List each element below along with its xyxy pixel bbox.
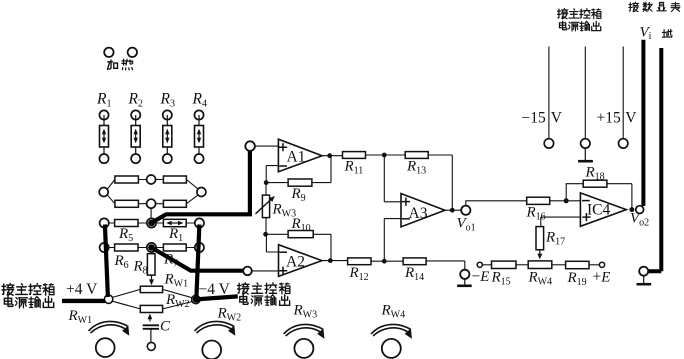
bridge resistor bottom-right: [163, 200, 186, 207]
node Vo2: [636, 206, 644, 214]
svg-text:C: C: [160, 319, 171, 335]
resistor R17: [536, 227, 565, 260]
svg-text:−4 V: −4 V: [199, 281, 231, 298]
resistor R19: [566, 261, 589, 268]
bridge wires: [107, 180, 198, 219]
wire RW4 to R19: [552, 264, 566, 266]
node R6 row right: [195, 243, 204, 252]
thick wire -4V out: [196, 296, 238, 299]
wire A1 minus input: [266, 166, 278, 183]
label 接主控箱 电源输出 at A2: [238, 283, 290, 306]
svg-text:−15: −15: [522, 110, 546, 127]
resistor R10: [288, 231, 313, 238]
resistor R15: [492, 261, 517, 268]
wire R9: [266, 156, 331, 183]
capacitor C branch: [143, 314, 171, 351]
bridge top middle node: [147, 175, 156, 184]
thick wire bridge mid to A1 input: [152, 150, 250, 223]
wire A3 minus input: [384, 219, 401, 262]
node +15V: [619, 139, 628, 148]
label 加热: [108, 59, 133, 70]
supply wire +15V: [622, 47, 624, 139]
node -15V: [544, 139, 553, 148]
resistor R12: [348, 258, 371, 265]
potentiometer node +4V: [104, 295, 112, 303]
strain gauge R3: [160, 91, 175, 164]
junction A1 feedback: [264, 180, 269, 185]
junction R11 R13: [382, 153, 387, 158]
wire R10: [266, 234, 331, 260]
node supply ground: [581, 139, 590, 148]
svg-text:+15: +15: [597, 110, 621, 127]
knob RW2: [195, 306, 242, 359]
junction A1 output: [327, 153, 332, 158]
wire IC4 plus input: [541, 217, 581, 227]
svg-text:IC4: IC4: [587, 202, 611, 219]
hexagon wires RW1 RW2: [112, 289, 192, 309]
supply wire ground middle: [584, 47, 586, 139]
junction blob R5 mid: [148, 220, 155, 227]
resistor R8: [147, 252, 155, 285]
thick wire +4V feed: [62, 299, 105, 303]
wire A2 plus input: [252, 270, 279, 272]
ground symbol supply: [584, 148, 586, 161]
wire R18 feedback: [566, 184, 632, 210]
resistor R16: [527, 197, 550, 204]
ground symbol at R14: [464, 279, 466, 286]
knob RW3: [284, 303, 325, 358]
node R5 row left: [100, 218, 109, 227]
svg-text:+4 V: +4 V: [66, 281, 98, 298]
resistor R6: [115, 244, 138, 251]
node R5 row right: [195, 218, 204, 227]
heater terminal left: [104, 48, 113, 57]
bridge bottom middle node: [147, 199, 156, 208]
thick wire ground: [648, 48, 661, 271]
wire R16 to IC4: [550, 200, 581, 202]
wire R14 to ground: [426, 261, 465, 270]
node +E: [599, 262, 604, 267]
wire RW3 chain: [265, 184, 267, 234]
op-amp A1: [278, 139, 322, 172]
op-amp A2: [279, 245, 322, 277]
thick wire Vi: [641, 40, 645, 206]
thick wire right riser: [196, 225, 199, 298]
wire R5 row: [109, 222, 195, 224]
node R5 row middle: [147, 218, 156, 227]
wire A1 plus input: [255, 145, 279, 147]
bridge socket left node: [99, 188, 108, 197]
op-amp IC4: [580, 193, 626, 226]
resistor R13: [405, 152, 428, 159]
wire R12 to R14: [371, 260, 403, 262]
junction A2 output: [328, 258, 333, 263]
strain gauge R1: [96, 91, 111, 164]
svg-text:A3: A3: [409, 205, 428, 222]
potentiometer RW4: [528, 261, 552, 269]
node A1 input: [245, 141, 255, 151]
junction A2 feedback: [263, 232, 268, 237]
knob RW4: [371, 303, 412, 358]
wire R13 to Vo1: [428, 155, 452, 210]
label 接主控箱 电源输出 left: [2, 284, 54, 308]
wire R19 to +E: [589, 264, 599, 266]
potentiometer RW1: [140, 286, 162, 292]
svg-text:A1: A1: [287, 149, 306, 166]
supply wire -15V: [548, 47, 550, 139]
label 接数显表: [629, 2, 680, 11]
balance resistor R1 with arrows: [163, 219, 186, 226]
op-amp A3: [401, 194, 445, 227]
wire R11 to R13: [366, 154, 406, 156]
resistor R14: [403, 258, 426, 265]
wire A2 minus input: [266, 236, 278, 252]
resistor R7: [163, 244, 186, 251]
strain gauge R2: [128, 91, 143, 164]
wire R6 row: [109, 247, 195, 249]
heater terminal right: [128, 48, 137, 57]
junction A3 output: [450, 208, 455, 213]
potentiometer RW2: [140, 305, 162, 312]
junction blob -4V: [193, 296, 200, 303]
wire A3 plus input: [384, 155, 401, 202]
node R6 row left: [100, 243, 109, 252]
resistor R5: [115, 220, 138, 227]
resistor R18: [583, 180, 607, 187]
junction R18 tap: [564, 198, 569, 203]
svg-text:A2: A2: [286, 254, 305, 271]
wire Vo1 to R16: [466, 201, 527, 206]
label 接主控箱 电源输出 top: [557, 9, 600, 31]
node ground output: [639, 267, 648, 276]
wire A1 out to R11: [322, 155, 342, 157]
ground node circle: [460, 270, 469, 279]
rheostat RW3: [256, 195, 297, 219]
junction R12 R14: [382, 259, 387, 264]
node -E: [477, 262, 482, 267]
bridge resistor bottom-left: [115, 200, 138, 207]
ground symbol output: [643, 276, 645, 284]
strain gauge R4: [192, 91, 207, 164]
resistor R9: [288, 179, 312, 186]
node R6 row middle: [147, 243, 156, 252]
potentiometer node -4V: [192, 295, 200, 303]
knob RW1: [68, 308, 130, 357]
node Vo1: [461, 206, 470, 215]
thick wire left riser: [105, 225, 108, 298]
wire A2 out to R12: [322, 260, 348, 262]
svg-text:+E: +E: [593, 269, 611, 286]
junction IC4 output: [629, 207, 634, 212]
junction blob R6 mid: [148, 244, 155, 251]
bridge resistor top-right: [163, 176, 186, 183]
bridge socket right node: [197, 188, 206, 197]
bridge resistor top-left: [115, 176, 138, 183]
wire R15 to RW4: [516, 264, 528, 266]
wire A3 out: [445, 209, 461, 211]
svg-text:V: V: [551, 110, 563, 127]
svg-text:V: V: [625, 110, 637, 127]
node A2 input: [243, 267, 252, 276]
svg-text:−E: −E: [472, 268, 490, 285]
thick wire R6 mid to A2 input: [152, 248, 244, 271]
label 地: [662, 29, 672, 37]
resistor R11: [343, 152, 366, 159]
wire -E to R15: [482, 264, 491, 266]
